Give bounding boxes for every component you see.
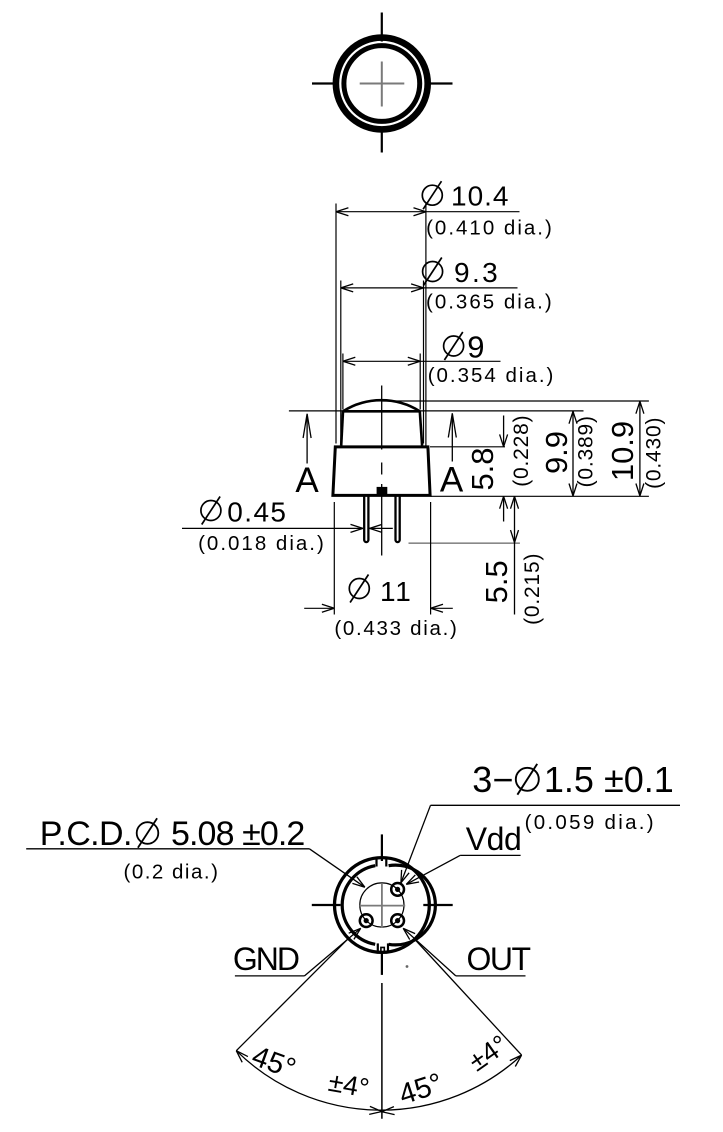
- pin OUT hole: [391, 914, 404, 927]
- device can sides: [341, 411, 422, 445]
- svg-text:(0.389): (0.389): [575, 415, 598, 487]
- dimension leader ø0.45: [182, 524, 393, 532]
- top view inner circle (can ø9.3): [344, 46, 420, 122]
- section arrow A left: [303, 414, 311, 464]
- svg-text:GND: GND: [233, 941, 299, 977]
- bottom view gray center cross: [360, 883, 405, 927]
- label ø0.45: [201, 496, 288, 527]
- pin GND hole: [360, 914, 373, 927]
- top view gray center cross: [360, 62, 405, 107]
- svg-text:P.C.D.: P.C.D.: [40, 815, 132, 853]
- bottom view tick top: [381, 834, 383, 861]
- reference line flange top right: [430, 446, 505, 448]
- dimension line ø10.4: [336, 208, 520, 216]
- svg-text:3−: 3−: [472, 759, 513, 800]
- angle arc arrow left end: [236, 1051, 248, 1063]
- angle dimension arc: [236, 1051, 521, 1110]
- top view center tick bottom: [381, 127, 383, 153]
- svg-text:(0.2 dia.): (0.2 dia.): [124, 861, 220, 884]
- label (0.215) rotated: [521, 553, 544, 625]
- top view outer circle (flange ø10.4): [336, 38, 428, 130]
- label (0.410 dia.): [426, 216, 554, 239]
- leader Vdd: [406, 855, 520, 884]
- stray dot: [406, 965, 409, 968]
- label plus-minus 4 right: [463, 1029, 513, 1077]
- device lens dome: [343, 400, 420, 411]
- device center weld square: [377, 487, 388, 496]
- bottom view tick left: [312, 904, 341, 906]
- svg-text:0.45: 0.45: [227, 496, 287, 527]
- svg-text:9.9: 9.9: [539, 431, 574, 474]
- label ø9.3: [423, 257, 501, 288]
- top view center tick right: [425, 82, 453, 84]
- label Vdd: [466, 821, 521, 857]
- label (0.433 dia.): [334, 617, 458, 640]
- label (0.228) rotated: [510, 415, 533, 487]
- label (0.018 dia.): [198, 532, 326, 555]
- device center line: [381, 386, 383, 556]
- svg-text:OUT: OUT: [467, 941, 531, 977]
- device flange: [333, 447, 430, 496]
- extension lines ø9: [343, 354, 420, 410]
- label P.C.D. ø5.08 ±0.2: [40, 815, 305, 853]
- top view center tick left: [312, 82, 339, 84]
- reference line lens apex: [382, 400, 649, 402]
- svg-text:(0.215): (0.215): [521, 553, 544, 625]
- reference line pin bottom: [409, 542, 520, 544]
- bottom view bottom notch: [378, 943, 388, 952]
- svg-text:(0.228): (0.228): [510, 415, 533, 487]
- label (0.059 dia.): [525, 811, 656, 834]
- reference line seating plane: [431, 495, 649, 497]
- svg-text:(0.433 dia.): (0.433 dia.): [334, 617, 458, 640]
- svg-text:(0.365 dia.): (0.365 dia.): [426, 291, 554, 314]
- svg-text:(0.410 dia.): (0.410 dia.): [426, 216, 554, 239]
- leader GND: [235, 928, 361, 976]
- label 5.8 rotated: [465, 447, 500, 490]
- label ø11: [349, 575, 412, 608]
- section arrow A right: [448, 413, 456, 461]
- svg-text:11: 11: [380, 576, 413, 607]
- label (0.389) rotated: [575, 415, 598, 487]
- bottom view tick bottom: [381, 953, 383, 975]
- extension lines ø9.3: [341, 281, 424, 444]
- label (0.365 dia.): [426, 291, 554, 314]
- svg-text:(0.354 dia.): (0.354 dia.): [428, 364, 556, 387]
- label 3-ø1.5 ±0.1: [472, 759, 673, 800]
- label ø10.4: [422, 180, 509, 211]
- svg-text:A: A: [295, 461, 319, 500]
- label (0.2 dia.): [124, 861, 220, 884]
- bottom view inner circle: [342, 865, 435, 945]
- svg-text:A: A: [440, 460, 464, 499]
- svg-text:9: 9: [467, 329, 484, 364]
- pin Vdd hole: [391, 883, 404, 896]
- dimension line 5.5: [511, 496, 519, 614]
- label GND: [233, 941, 299, 977]
- svg-text:10.4: 10.4: [451, 180, 510, 211]
- svg-text:5.8: 5.8: [465, 447, 500, 490]
- svg-text:(0.059 dia.): (0.059 dia.): [525, 811, 656, 834]
- bottom view pitch circle P.C.D.: [360, 883, 404, 927]
- label (0.430) rotated: [643, 417, 666, 489]
- label 45 right: [395, 1067, 447, 1111]
- dimension line ø9.3: [341, 284, 518, 292]
- dimension line 9.9: [569, 411, 577, 496]
- bottom view top notch: [377, 859, 387, 867]
- label 10.9 rotated: [605, 421, 640, 481]
- extension lines ø10.4: [336, 204, 426, 446]
- svg-text:9.3: 9.3: [454, 257, 500, 288]
- dimension line 10.9: [636, 401, 644, 496]
- device left pin: [364, 495, 368, 542]
- bottom view outer circle: [335, 858, 430, 953]
- angle arc arrow right end: [510, 1055, 522, 1066]
- label OUT: [467, 941, 531, 977]
- leader 3-ø1.5: [401, 805, 680, 883]
- bottom view tick right: [423, 904, 452, 906]
- svg-text:5.5: 5.5: [479, 560, 514, 603]
- svg-text:5.08 ±0.2: 5.08 ±0.2: [171, 815, 304, 853]
- top view center tick top: [381, 13, 383, 42]
- leader OUT: [403, 928, 525, 976]
- label 45 left: [248, 1040, 300, 1085]
- device right pin: [396, 495, 400, 542]
- angle line right 45: [416, 941, 522, 1056]
- extension lines ø11: [334, 502, 430, 615]
- angle center line: [381, 983, 383, 1119]
- label (0.354 dia.): [428, 364, 556, 387]
- reference line lens base: [289, 410, 584, 412]
- dimension line 5.8: [500, 416, 508, 522]
- section label A right: [440, 460, 464, 499]
- svg-text:1.5 ±0.1: 1.5 ±0.1: [544, 759, 674, 800]
- svg-text:(0.018 dia.): (0.018 dia.): [198, 532, 326, 555]
- label 9.9 rotated: [539, 431, 574, 474]
- dimension line ø11: [304, 604, 453, 612]
- label plus-minus 4 left: [326, 1067, 371, 1104]
- dimension line ø9: [343, 357, 501, 365]
- label ø9: [444, 329, 485, 364]
- label 5.5 rotated: [479, 560, 514, 603]
- leader P.C.D.: [26, 849, 365, 887]
- svg-text:(0.430): (0.430): [643, 417, 666, 489]
- svg-text:Vdd: Vdd: [466, 821, 521, 857]
- angle arc arrows at center line: [369, 1106, 394, 1114]
- svg-text:10.9: 10.9: [605, 421, 640, 481]
- section label A left: [295, 461, 319, 500]
- angle line left 45: [236, 940, 347, 1051]
